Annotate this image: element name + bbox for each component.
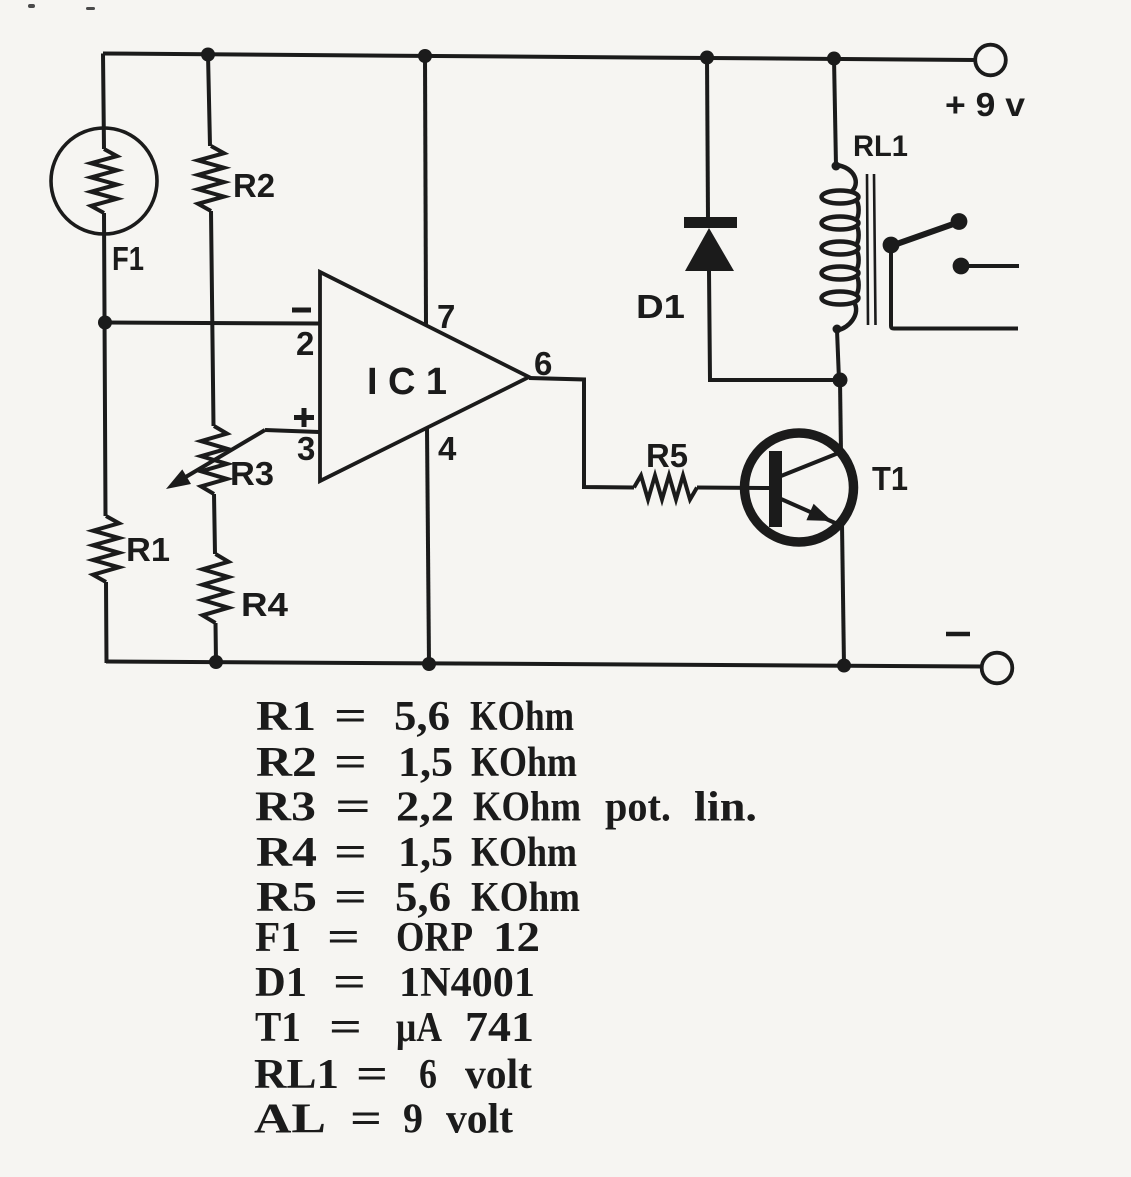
minus polarity bar xyxy=(946,632,970,637)
svg-text:R1: R1 xyxy=(126,531,170,568)
svg-text:D1=1N4001: D1=1N4001 xyxy=(255,960,535,1006)
svg-text:F1=ORP12: F1=ORP12 xyxy=(255,915,540,961)
relay contact NC dot xyxy=(953,258,970,275)
svg-text:IC1: IC1 xyxy=(367,361,447,403)
relay contact pivot dot xyxy=(883,237,900,254)
relay contact common lead xyxy=(891,246,1018,329)
node: F1 / R1 / inverting input xyxy=(98,316,112,330)
svg-text:T1: T1 xyxy=(872,460,908,497)
node: bottom rail / R4 xyxy=(209,655,223,669)
wire: R2/R3/R4 divider branch xyxy=(208,54,216,662)
node: bottom rail / pin4 xyxy=(422,657,436,671)
relay coil RL1 hook top xyxy=(836,165,856,192)
relay coil RL1 loop 1 xyxy=(822,191,859,204)
wire: R5 to T1 base xyxy=(697,486,769,491)
svg-text:RL1=6volt: RL1=6volt xyxy=(254,1052,532,1098)
relay contact NC lead xyxy=(963,264,1019,268)
wire: inverting input from node A xyxy=(105,323,319,324)
relay contact arm xyxy=(891,222,959,246)
node: top rail / D1 xyxy=(700,51,714,65)
svg-text:R4=1,5KOhm: R4=1,5KOhm xyxy=(256,830,577,876)
svg-text:T1=μA741: T1=μA741 xyxy=(255,1005,534,1051)
svg-text:6: 6 xyxy=(534,345,552,382)
svg-text:4: 4 xyxy=(438,430,457,467)
photoresistor F1 circle xyxy=(51,128,157,234)
terminal minus circle xyxy=(982,653,1013,684)
potentiometer R3 zigzag xyxy=(201,426,227,494)
svg-text:R1=5,6KOhm: R1=5,6KOhm xyxy=(256,694,574,740)
resistor R5 zigzag xyxy=(634,476,697,500)
diode D1 triangle xyxy=(685,228,734,271)
op-amp plus sign xyxy=(294,408,314,427)
svg-text:7: 7 xyxy=(437,298,455,335)
wire: op-amp output pin 6 to R5 xyxy=(529,378,634,488)
svg-text:R3: R3 xyxy=(230,455,274,492)
svg-text:3: 3 xyxy=(297,430,315,467)
coil end blob xyxy=(833,325,842,334)
op-amp inverting minus bar xyxy=(292,308,311,313)
diode D1 top wire xyxy=(707,57,708,219)
relay coil RL1 bottom wire xyxy=(837,330,839,380)
node: bottom rail / emitter xyxy=(837,659,851,673)
resistor R2 zigzag xyxy=(198,146,224,211)
transistor T1 base bar xyxy=(769,451,782,527)
scan speck xyxy=(28,4,35,8)
transistor T1 circle xyxy=(745,433,854,542)
relay coil RL1 loop 3 xyxy=(822,242,859,255)
R3 wiper arrow line xyxy=(184,430,265,478)
relay contact NO dot xyxy=(951,213,968,230)
transistor T1 collector stroke xyxy=(781,452,841,476)
transistor T1 emitter arrowhead xyxy=(806,504,832,521)
wire: pin 7 supply xyxy=(425,56,426,325)
wire: pin 4 to bottom rail xyxy=(427,428,429,664)
svg-text:R3=2,2KOhmpot.lin.: R3=2,2KOhmpot.lin. xyxy=(255,785,757,831)
wire: T1 emitter down to bottom rail xyxy=(842,524,844,666)
svg-text:RL1: RL1 xyxy=(853,130,908,163)
svg-text:R5: R5 xyxy=(646,437,688,474)
svg-text:2: 2 xyxy=(296,325,314,362)
relay coil RL1 loop 5 xyxy=(822,292,859,305)
svg-text:+ 9 v: + 9 v xyxy=(945,86,1026,123)
relay coil RL1 top wire xyxy=(834,58,836,166)
svg-text:D1: D1 xyxy=(636,288,685,325)
relay coil RL1 hook bottom xyxy=(838,302,856,330)
node: D1 / RL1 / collector xyxy=(833,373,848,388)
node: top rail / RL1 xyxy=(827,52,841,66)
svg-text:F1: F1 xyxy=(112,240,144,277)
svg-text:R2: R2 xyxy=(233,167,275,204)
coil start blob xyxy=(832,162,841,171)
wire: T1 collector up to node xyxy=(840,380,841,453)
resistor R1 zigzag xyxy=(93,516,119,582)
op-amp IC1 triangle xyxy=(320,272,529,481)
relay coil RL1 loop 4 xyxy=(822,267,859,280)
relay coil RL1 right arcs xyxy=(856,200,859,295)
svg-text:R4: R4 xyxy=(241,586,289,623)
relay core bars xyxy=(867,174,876,325)
transistor T1 emitter stroke xyxy=(781,499,842,526)
wire: left vertical F1 branch xyxy=(103,54,107,664)
svg-text:R2=1,5KOhm: R2=1,5KOhm xyxy=(256,740,577,786)
svg-text:AL=9volt: AL=9volt xyxy=(254,1097,513,1143)
wire: bottom rail xyxy=(106,662,982,667)
wire: non-inverting input xyxy=(265,430,319,432)
resistor R4 zigzag xyxy=(203,554,229,623)
diode D1 bottom wire xyxy=(709,271,840,380)
node: top rail / pin7 xyxy=(418,49,432,63)
wire: +9V top rail xyxy=(103,54,975,61)
terminal +9V circle xyxy=(975,45,1006,76)
node: top rail / R2 xyxy=(201,48,215,62)
R3 wiper arrowhead xyxy=(166,469,191,489)
relay coil RL1 loop 2 xyxy=(822,217,859,230)
scan speck xyxy=(86,7,95,10)
F1 resistive element zigzag xyxy=(91,149,117,213)
diode D1 cathode bar xyxy=(684,217,737,228)
